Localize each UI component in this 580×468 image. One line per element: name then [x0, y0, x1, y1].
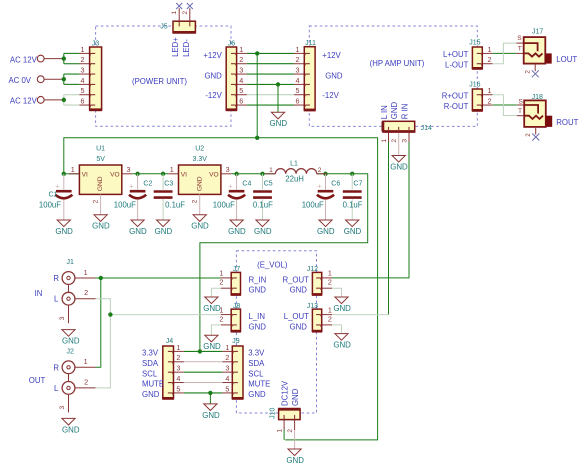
svg-text:R_IN: R_IN	[249, 275, 267, 284]
svg-text:J15: J15	[469, 40, 480, 47]
svg-text:VI: VI	[181, 171, 187, 178]
svg-text:3: 3	[401, 139, 408, 143]
capacitor C3 (ceramic)	[154, 174, 173, 220]
svg-text:GND: GND	[248, 390, 266, 399]
svg-text:J12: J12	[307, 266, 318, 273]
connector J12	[312, 272, 332, 294]
svg-text:2: 2	[328, 314, 332, 323]
svg-text:GND: GND	[97, 176, 104, 191]
svg-text:GND: GND	[62, 425, 80, 434]
ground symbol (J12)	[335, 297, 348, 304]
ground symbol (J14)	[392, 156, 405, 163]
svg-text:2: 2	[84, 378, 88, 387]
capacitor C1 (polarized)	[55, 174, 72, 220]
svg-text:L+OUT: L+OUT	[443, 50, 469, 59]
HP AMP UNIT dashed boundary box	[309, 26, 477, 126]
svg-text:3: 3	[59, 316, 66, 320]
junction AC 0V	[62, 77, 66, 81]
phone jack J18	[517, 100, 552, 134]
svg-text:4: 4	[81, 76, 85, 85]
connector J6 pin numbers 1-6	[239, 45, 243, 106]
svg-text:GND: GND	[333, 304, 351, 313]
svg-text:2: 2	[525, 133, 532, 137]
wire +12V long rail (J6 pin1 to U1 and to J10 DC12V)	[64, 138, 378, 440]
connector J5	[173, 21, 196, 32]
svg-text:1: 1	[296, 45, 300, 54]
svg-text:(POWER UNIT): (POWER UNIT)	[132, 77, 187, 86]
svg-text:ROUT: ROUT	[556, 118, 578, 127]
junction rail at C5	[260, 172, 264, 176]
svg-text:2: 2	[328, 278, 332, 287]
svg-text:GND: GND	[317, 227, 335, 236]
svg-text:LOUT: LOUT	[556, 55, 577, 64]
svg-text:J8: J8	[233, 303, 241, 310]
ground symbol (C4)	[230, 220, 243, 227]
svg-text:U2: U2	[195, 146, 204, 153]
svg-text:GND: GND	[191, 222, 209, 231]
connector J13	[312, 309, 332, 331]
phone jack J17	[516, 37, 551, 71]
RCA connector J2 (OUT)	[62, 361, 95, 413]
capacitor C2 (polarized)	[129, 174, 146, 220]
svg-text:GND: GND	[204, 71, 222, 80]
E_VOL dashed boundary box	[236, 251, 316, 413]
wire J15 pin1 to J17 tip	[493, 52, 517, 54]
svg-text:2: 2	[81, 55, 85, 64]
svg-text:MUTE: MUTE	[248, 380, 270, 389]
svg-text:1: 1	[239, 45, 243, 54]
svg-text:J10: J10	[269, 408, 276, 419]
svg-text:AC 12V: AC 12V	[10, 56, 38, 65]
wire net AC 0V: stub from terminal circle to junction	[44, 78, 64, 80]
ground symbol (U1)	[94, 215, 107, 222]
ground symbol (J8)	[205, 335, 218, 342]
svg-text:R: R	[53, 274, 59, 283]
svg-text:SDA: SDA	[248, 359, 265, 368]
svg-text:C3: C3	[164, 180, 173, 187]
ground symbol (J1)	[62, 330, 75, 337]
svg-text:J7: J7	[233, 266, 241, 273]
wire row5 GND drop	[209, 393, 211, 404]
svg-text:GND: GND	[290, 286, 308, 295]
svg-text:100uF: 100uF	[39, 200, 61, 209]
svg-text:-12V: -12V	[205, 91, 222, 100]
connector J15	[472, 47, 493, 68]
svg-text:2: 2	[84, 288, 88, 297]
svg-text:1: 1	[170, 165, 174, 174]
svg-text:2: 2	[219, 278, 223, 287]
svg-text:2: 2	[318, 167, 322, 174]
capacitor C4 (polarized)	[228, 174, 245, 220]
connector J3 pin numbers 1-6	[81, 45, 85, 106]
svg-text:J9: J9	[232, 338, 240, 345]
junction GND at J4/J9 row5	[208, 391, 212, 395]
junction L channel	[108, 312, 112, 316]
connector J8	[221, 309, 241, 331]
svg-text:+: +	[317, 181, 322, 190]
connector J4 pin stubs	[174, 351, 184, 393]
svg-text:0.1uF: 0.1uF	[343, 200, 363, 209]
svg-text:2: 2	[225, 353, 229, 362]
junction GND at row4	[276, 82, 280, 86]
terminal circle AC 12V (bottom)	[37, 96, 44, 103]
svg-text:1: 1	[488, 86, 492, 95]
wire net AC 12V (top): stub from terminal circle to junction	[44, 58, 64, 60]
svg-text:3: 3	[225, 364, 229, 373]
svg-text:SDA: SDA	[142, 359, 159, 368]
ground symbol (I2C bus GND)	[204, 404, 217, 411]
svg-text:+12V: +12V	[203, 51, 222, 60]
svg-text:J5: J5	[160, 24, 168, 31]
svg-text:2: 2	[192, 199, 199, 203]
svg-text:S: S	[518, 99, 523, 106]
svg-text:SCL: SCL	[142, 369, 158, 378]
wire J16 pin1 to J18 tip (bent)	[493, 95, 517, 116]
svg-text:AC 12V: AC 12V	[10, 97, 38, 106]
svg-text:GND: GND	[325, 71, 343, 80]
connector J5 pin leads	[178, 8, 180, 21]
svg-text:IN: IN	[35, 289, 43, 298]
svg-text:L_OUT: L_OUT	[284, 312, 309, 321]
svg-text:C5: C5	[264, 180, 273, 187]
labels J4: 3.3V SDA SCL MUTE GND	[142, 349, 164, 400]
svg-text:J17: J17	[532, 28, 543, 35]
wire J10 pin2 GND lead	[294, 430, 296, 449]
svg-text:100uF: 100uF	[114, 200, 136, 209]
ground symbol (C5)	[256, 220, 269, 227]
svg-text:1: 1	[328, 269, 332, 278]
ground symbol (U2)	[193, 215, 206, 222]
svg-text:GND: GND	[203, 342, 221, 351]
svg-text:VI: VI	[82, 171, 88, 178]
svg-text:GND: GND	[203, 304, 221, 313]
svg-text:6: 6	[296, 96, 300, 105]
svg-text:2: 2	[391, 139, 398, 143]
svg-text:GND: GND	[142, 390, 160, 399]
junction +12V rail at J6 pin1	[255, 51, 259, 55]
inductor L1	[265, 169, 327, 174]
svg-text:GND: GND	[62, 337, 80, 346]
wire R channel drop to J2 pin1	[96, 278, 101, 367]
connector J5 external X marks	[176, 3, 193, 9]
svg-text:GND: GND	[390, 102, 399, 120]
svg-text:2: 2	[296, 55, 300, 64]
svg-text:+: +	[228, 181, 233, 190]
ground symbol (J10)	[288, 449, 301, 456]
wire L channel net to J8 L_IN	[110, 314, 221, 316]
wire +12V drop from junction down to long rail	[256, 53, 258, 137]
phone jack J18 no-connect X	[532, 134, 539, 141]
svg-text:DC12V: DC12V	[280, 380, 289, 406]
svg-text:5: 5	[176, 384, 180, 393]
svg-text:R-OUT: R-OUT	[444, 102, 469, 111]
svg-text:1: 1	[269, 167, 273, 174]
svg-text:1: 1	[381, 139, 388, 143]
svg-text:J1: J1	[66, 259, 74, 266]
svg-text:GND: GND	[291, 388, 300, 406]
connector J9	[232, 346, 244, 398]
junction +12V rail / drop	[255, 136, 259, 140]
ground symbol (C7)	[346, 220, 359, 227]
svg-text:R+OUT: R+OUT	[442, 92, 469, 101]
ground symbol (J2)	[62, 418, 75, 425]
svg-text:LED-: LED-	[182, 39, 191, 57]
svg-text:J14: J14	[421, 125, 432, 132]
svg-text:3.3V: 3.3V	[142, 349, 159, 358]
svg-text:2: 2	[287, 429, 294, 433]
connector J3	[89, 47, 102, 110]
svg-text:2: 2	[488, 96, 492, 105]
wire L channel drop to J2 pin2	[96, 315, 111, 388]
wire J14 pin1 L IN net down to corner	[388, 142, 390, 315]
svg-text:VO: VO	[110, 171, 120, 178]
svg-text:C2: C2	[143, 180, 152, 187]
svg-text:J4: J4	[166, 338, 174, 345]
svg-text:GND: GND	[55, 227, 73, 236]
svg-text:LED+: LED+	[171, 37, 180, 57]
junction rail at C7	[350, 172, 354, 176]
svg-text:1: 1	[171, 11, 178, 15]
svg-text:GND: GND	[333, 341, 351, 350]
svg-text:5: 5	[81, 86, 85, 95]
svg-text:C6: C6	[331, 180, 340, 187]
svg-text:+: +	[129, 181, 134, 190]
svg-text:3: 3	[81, 65, 85, 74]
svg-text:GND: GND	[254, 227, 272, 236]
svg-text:4: 4	[176, 374, 180, 383]
connector J16	[472, 89, 493, 110]
wire R channel net J1 pin1 to J7 R_IN	[96, 277, 222, 279]
svg-text:GND: GND	[129, 227, 147, 236]
regulator U1	[69, 165, 132, 215]
svg-text:AC 0V: AC 0V	[8, 76, 31, 85]
terminal circle AC 0V	[37, 76, 44, 83]
wire J14 pin2 GND lead	[398, 132, 400, 156]
connector J14 pin leads	[388, 132, 390, 142]
svg-text:GND: GND	[155, 227, 173, 236]
wire J15 pin2 to J17 sleeve (bent)	[493, 43, 517, 64]
connector J10 pin leads	[283, 420, 285, 430]
junction rail at C3	[161, 172, 165, 176]
connector J3 pin stubs	[79, 53, 89, 105]
POWER UNIT dashed boundary box	[96, 26, 231, 126]
svg-text:S: S	[517, 35, 522, 42]
svg-text:L1: L1	[290, 161, 298, 168]
wire J10 pin1 to +12V rail	[283, 430, 285, 440]
svg-text:J16: J16	[469, 82, 480, 89]
wire J13 pin2 to ground	[331, 325, 342, 334]
svg-text:(E_VOL): (E_VOL)	[257, 260, 288, 269]
connector J9 pin numbers 1-5	[225, 343, 229, 394]
wire power net row 1 (J6 pin1 to J11 pin1)	[247, 52, 294, 54]
svg-text:+12V: +12V	[322, 51, 341, 60]
wire power net row 6 (J6 pin6 to J11 pin6)	[247, 104, 294, 106]
ground symbol (J7)	[205, 297, 218, 304]
svg-text:OUT: OUT	[29, 376, 46, 385]
junction rail at C2	[135, 172, 139, 176]
wire rail U1 VO to U2 VI	[132, 173, 168, 175]
svg-text:1: 1	[328, 305, 332, 314]
svg-text:R: R	[53, 363, 59, 372]
wire net AC 12V (bottom): bracket to J3 pins 5,6	[63, 95, 65, 105]
svg-text:GND: GND	[286, 456, 304, 465]
connector J14	[382, 121, 415, 131]
svg-text:T: T	[518, 46, 522, 53]
capacitor C6 (polarized)	[317, 174, 334, 220]
connector J6 pin stubs	[237, 53, 247, 105]
svg-text:C1: C1	[49, 192, 58, 199]
terminal circle AC 12V (top)	[37, 55, 44, 62]
svg-text:1: 1	[84, 357, 88, 366]
capacitor C7 (ceramic)	[343, 174, 362, 220]
svg-text:3: 3	[176, 364, 180, 373]
connector J4 pin numbers 1-5	[176, 343, 180, 394]
connector J6	[226, 47, 237, 110]
svg-text:3: 3	[296, 65, 300, 74]
svg-text:J11: J11	[305, 40, 316, 47]
svg-text:4: 4	[239, 76, 243, 85]
wire J14 pin3 R IN net down to J12 R_OUT	[332, 142, 410, 278]
svg-text:1: 1	[225, 343, 229, 352]
svg-text:J13: J13	[307, 303, 318, 310]
wire power net row 2 (J6 pin2 to J11 pin2)	[247, 63, 294, 65]
svg-text:T: T	[518, 108, 522, 115]
svg-text:3: 3	[127, 165, 131, 174]
svg-text:1: 1	[84, 268, 88, 277]
svg-text:GND: GND	[290, 322, 308, 331]
phone jack J17 no-connect X	[532, 70, 539, 77]
wire rail L1 to corner and down to 3.3V feed	[200, 174, 368, 352]
svg-text:J2: J2	[66, 348, 74, 355]
svg-text:GND: GND	[92, 222, 110, 231]
svg-text:GND: GND	[270, 119, 288, 128]
junction AC 12V (top)	[62, 56, 66, 60]
svg-text:5V: 5V	[96, 156, 105, 163]
svg-text:0.1uF: 0.1uF	[165, 200, 185, 209]
svg-text:1: 1	[176, 343, 180, 352]
svg-text:L_IN: L_IN	[249, 312, 265, 321]
junction rail at C6	[323, 172, 327, 176]
svg-text:GND: GND	[228, 227, 246, 236]
svg-text:GND: GND	[249, 322, 267, 331]
ground symbol (C2)	[131, 220, 144, 227]
connector J4	[162, 346, 174, 398]
wire L channel net J1 pin2 bend	[96, 299, 111, 315]
svg-text:1: 1	[219, 269, 223, 278]
wire power net row 3 (J6 pin3 to J11 pin3)	[247, 73, 294, 75]
regulator U2	[168, 165, 231, 215]
svg-text:2: 2	[92, 199, 99, 203]
wire L_OUT net corner to J13 pin1	[332, 314, 389, 316]
svg-text:+: +	[55, 181, 60, 190]
svg-text:GND: GND	[249, 286, 267, 295]
wire net AC 12V (bottom): stub from terminal circle to junction	[44, 99, 64, 101]
svg-text:GND: GND	[344, 227, 362, 236]
wire net AC 12V (top): bracket to J3 pins 1,2	[63, 53, 65, 63]
svg-text:C4: C4	[242, 180, 251, 187]
junction AC 12V (bottom)	[62, 98, 66, 102]
wire power net row 4 (J6 pin4 to J11 pin4)	[247, 83, 294, 85]
svg-text:J6: J6	[228, 41, 236, 48]
svg-text:0.1uF: 0.1uF	[253, 200, 273, 209]
svg-text:3: 3	[59, 405, 66, 409]
svg-text:L: L	[54, 384, 59, 393]
svg-text:C7: C7	[353, 180, 362, 187]
svg-text:2: 2	[488, 55, 492, 64]
svg-text:1: 1	[488, 45, 492, 54]
connector J10	[278, 409, 301, 419]
ground symbol (C6)	[319, 220, 332, 227]
connector J7	[221, 272, 241, 294]
svg-text:1: 1	[71, 165, 75, 174]
junction 3.3V at J4/J9 row1	[198, 349, 202, 353]
svg-text:2: 2	[239, 55, 243, 64]
svg-text:4: 4	[225, 374, 229, 383]
svg-text:GND: GND	[202, 411, 220, 420]
wire J8 pin2 to ground	[211, 325, 221, 335]
svg-text:(HP AMP UNIT): (HP AMP UNIT)	[370, 59, 425, 68]
wires J4 to J9 bus rows	[184, 351, 223, 393]
svg-text:GND: GND	[390, 162, 408, 171]
svg-text:5: 5	[239, 86, 243, 95]
svg-text:2: 2	[525, 70, 532, 74]
svg-text:6: 6	[81, 96, 85, 105]
svg-text:5: 5	[296, 86, 300, 95]
wire rail U2 VO to L1	[231, 173, 275, 175]
connector J11	[304, 47, 316, 110]
wire regulated rail segment C1 to U1 VI	[64, 173, 80, 175]
junction rail at C1	[62, 172, 66, 176]
svg-text:L-OUT: L-OUT	[445, 61, 469, 70]
svg-text:2: 2	[176, 353, 180, 362]
junction rail at C4	[234, 172, 238, 176]
svg-text:3: 3	[226, 165, 230, 174]
svg-text:5: 5	[225, 384, 229, 393]
wire GND drop from row4 junction	[277, 84, 279, 112]
wire J12 pin2 to ground	[331, 288, 342, 297]
svg-text:100uF: 100uF	[213, 200, 235, 209]
connector J11 pin numbers 1-6	[296, 45, 300, 106]
svg-text:2: 2	[182, 11, 189, 15]
capacitor C5 (ceramic)	[253, 174, 272, 220]
svg-text:MUTE: MUTE	[142, 380, 164, 389]
RCA connector J1 (IN)	[62, 272, 95, 324]
wire power net row 5 (J6 pin5 to J11 pin5)	[247, 94, 294, 96]
svg-text:3.3V: 3.3V	[248, 349, 265, 358]
svg-text:VO: VO	[209, 171, 219, 178]
svg-text:L IN: L IN	[380, 105, 389, 119]
ground symbol (J13)	[335, 334, 348, 341]
connector J9 pin stubs	[222, 351, 232, 393]
svg-text:22uH: 22uH	[285, 175, 304, 184]
svg-text:U1: U1	[96, 146, 105, 153]
svg-text:3.3V: 3.3V	[192, 156, 207, 163]
svg-text:SCL: SCL	[248, 369, 264, 378]
svg-text:6: 6	[239, 96, 243, 105]
wire J7 pin2 to ground	[211, 288, 221, 297]
svg-text:R IN: R IN	[400, 104, 409, 120]
svg-text:3: 3	[239, 65, 243, 74]
svg-text:2: 2	[219, 314, 223, 323]
svg-text:L: L	[54, 295, 59, 304]
ground symbol (C3)	[157, 220, 170, 227]
ground symbol (C1)	[57, 220, 70, 227]
labels J9: 3.3V SDA SCL MUTE GND	[248, 349, 270, 400]
svg-text:J18: J18	[532, 94, 543, 101]
svg-text:100uF: 100uF	[302, 200, 324, 209]
svg-text:1: 1	[81, 45, 85, 54]
svg-text:J3: J3	[92, 41, 100, 48]
